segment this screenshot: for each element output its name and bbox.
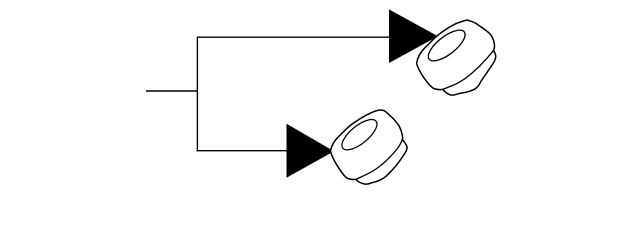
arrow to top grommet (389, 9, 438, 63)
wire: vertical branch line (196, 37, 198, 152)
wire: top branch horizontal (197, 36, 390, 38)
flange step line (bottom) (356, 140, 403, 180)
grommet (top right) (417, 20, 496, 95)
arrow to bottom grommet (287, 124, 335, 178)
center hole ellipse (bottom) (337, 114, 381, 155)
grommet body silhouette (bottom) (331, 110, 408, 184)
wire: bottom branch horizontal (197, 150, 288, 152)
grommet (bottom-left insulator) (331, 110, 408, 184)
wire: left stub line (146, 90, 197, 92)
